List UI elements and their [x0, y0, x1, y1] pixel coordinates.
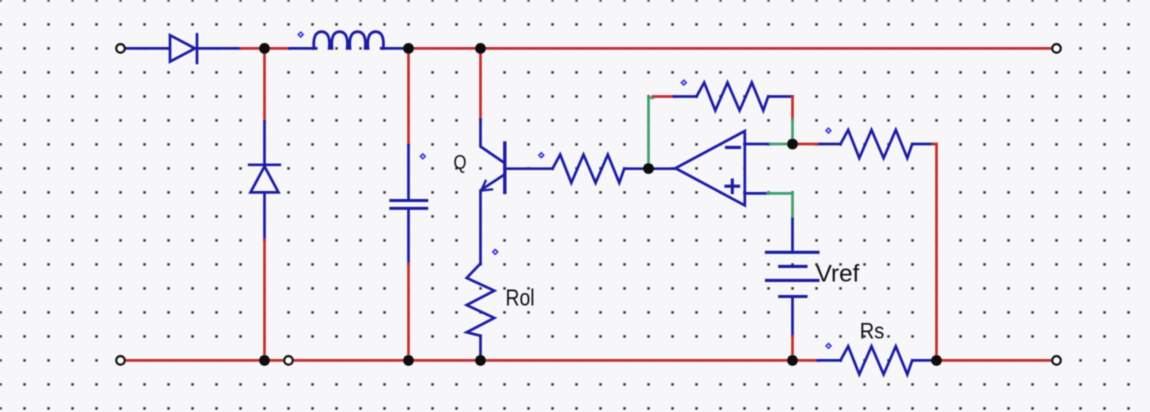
svg-text:Rs: Rs — [860, 319, 885, 344]
svg-text:Q: Q — [454, 152, 467, 174]
svg-text:Rol: Rol — [506, 285, 535, 311]
svg-text:Vref: Vref — [816, 260, 860, 287]
